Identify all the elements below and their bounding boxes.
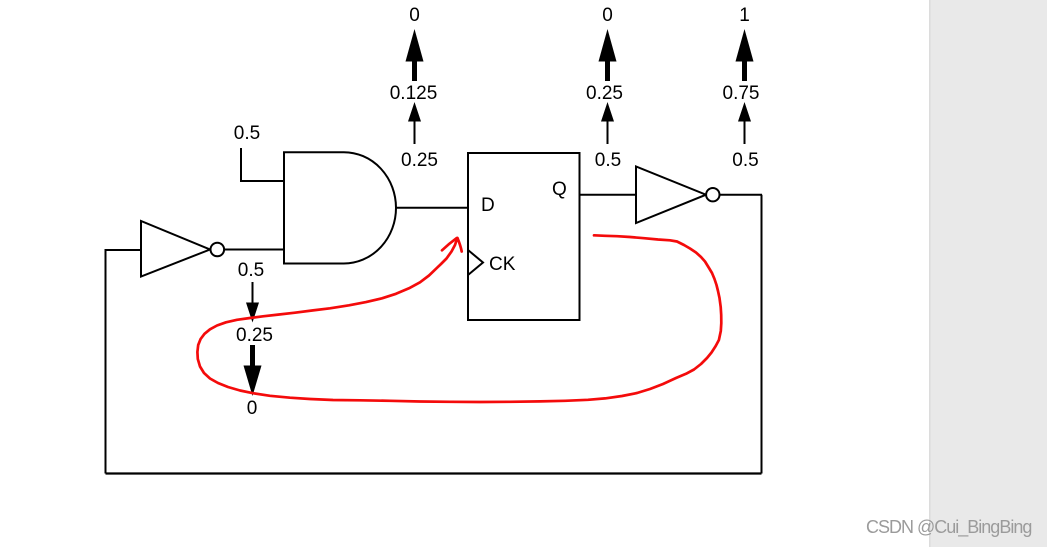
- svg-text:0.5: 0.5: [238, 260, 264, 281]
- svg-text:CSDN @Cui_BingBing: CSDN @Cui_BingBing: [866, 517, 1031, 538]
- thick up arrow 0.125 to 0: [406, 29, 424, 81]
- wire: feedback left vertical: [105, 250, 107, 474]
- wire: feedback bottom horizontal: [106, 472, 762, 474]
- inverter U1: [141, 221, 224, 277]
- inverter U4: [636, 167, 720, 224]
- svg-text:0.5: 0.5: [234, 123, 260, 144]
- svg-text:D: D: [481, 195, 495, 216]
- svg-text:0.25: 0.25: [236, 325, 273, 346]
- svg-text:0.25: 0.25: [586, 83, 623, 104]
- wire: U1 output to AND gate input B: [224, 249, 284, 251]
- wire: AND output to flip-flop D: [397, 207, 469, 209]
- svg-text:0.75: 0.75: [723, 83, 760, 104]
- svg-text:0: 0: [409, 5, 420, 26]
- thin up arrow 0.5 to 0.25: [601, 102, 614, 144]
- red annotation loop with arrow to CK: [197, 235, 721, 402]
- thick up arrow 0.25 to 0: [599, 29, 617, 81]
- AND gate U2: [284, 152, 396, 263]
- wire: AND gate input A (top, 0.5 source): [241, 148, 284, 181]
- svg-text:0: 0: [602, 5, 613, 26]
- wire: left inverter input: [105, 249, 142, 251]
- sidebar background: [929, 0, 1047, 547]
- svg-text:1: 1: [739, 5, 750, 26]
- svg-text:0.125: 0.125: [390, 83, 438, 104]
- thin up arrow 0.5 to 0.75: [738, 102, 751, 144]
- clock input triangle: [468, 250, 483, 275]
- svg-text:0.5: 0.5: [595, 150, 621, 171]
- thin down arrow 0.5 to 0.25: [246, 282, 259, 323]
- thin up arrow 0.25 to 0.125: [408, 102, 421, 144]
- wire: feedback right vertical: [761, 195, 763, 474]
- svg-text:0: 0: [247, 398, 258, 419]
- svg-text:0.5: 0.5: [732, 150, 758, 171]
- svg-text:Q: Q: [552, 179, 567, 200]
- flip-flop U3: [468, 153, 580, 320]
- thick down arrow 0.25 to 0: [244, 345, 262, 396]
- wire: U4 output to feedback corner: [720, 194, 763, 196]
- thick up arrow 0.75 to 1: [736, 29, 754, 81]
- svg-text:0.25: 0.25: [401, 150, 438, 171]
- wire: Q output to inverter U4: [580, 194, 637, 196]
- svg-text:CK: CK: [489, 254, 516, 275]
